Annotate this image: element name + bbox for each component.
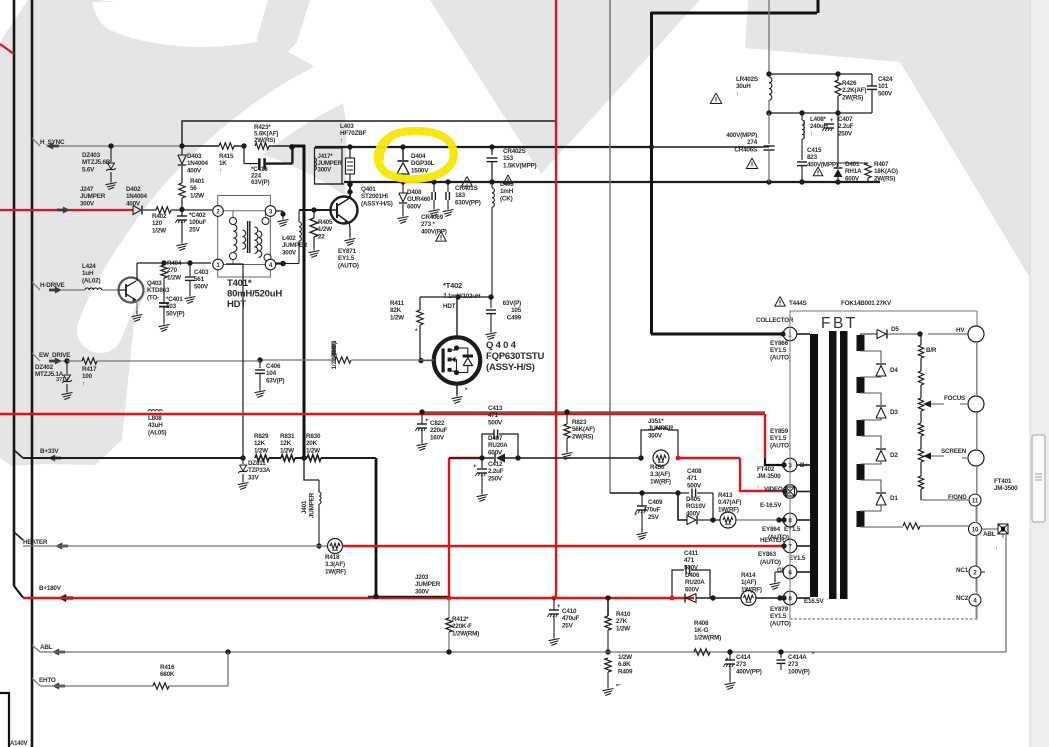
diode D405 [678, 493, 716, 525]
inductor LR402S [710, 76, 772, 116]
svg-text:Q403: Q403 [147, 280, 162, 287]
svg-text:H-DRIVE: H-DRIVE [40, 282, 65, 289]
svg-text:C412: C412 [488, 461, 503, 468]
wire red stub top-left [0, 44, 14, 54]
svg-text:E16.5V: E16.5V [804, 598, 824, 605]
svg-text:RU20A: RU20A [685, 579, 705, 586]
diode D403 [178, 146, 209, 183]
svg-text:250V: 250V [838, 130, 853, 137]
resistor R411 [390, 297, 423, 360]
capacitor C415 [797, 147, 838, 182]
svg-text:100: 100 [82, 373, 93, 380]
svg-text:L808: L808 [148, 415, 162, 422]
svg-text:KTD863: KTD863 [147, 287, 170, 294]
svg-text:300V: 300V [80, 200, 95, 207]
wire thick drop x376 [373, 458, 378, 599]
capacitor CR402S [487, 144, 537, 183]
svg-text:D408: D408 [407, 189, 422, 196]
svg-text:EY1.5: EY1.5 [770, 347, 787, 354]
svg-text:↑: ↑ [82, 380, 85, 387]
svg-text:J401: J401 [301, 500, 308, 514]
svg-text:R830: R830 [306, 433, 321, 440]
wire H_SYNC to R415 [108, 143, 219, 148]
svg-text:(AUTO): (AUTO) [338, 262, 359, 269]
svg-text:D1: D1 [890, 495, 898, 502]
svg-text:63V(P): 63V(P) [266, 377, 285, 384]
wire lr-mid [769, 110, 872, 115]
svg-text:D401: D401 [845, 161, 860, 168]
svg-text:220uF: 220uF [430, 427, 448, 434]
inductor L405 [492, 181, 514, 297]
pin E16.5V 8b [781, 591, 824, 605]
svg-text:C410: C410 [562, 608, 577, 615]
svg-text:1/2W: 1/2W [618, 654, 632, 661]
node B+33V [14, 448, 246, 462]
svg-text:27K: 27K [616, 618, 628, 625]
svg-text:R407: R407 [874, 161, 889, 168]
svg-text:CR402S: CR402S [503, 148, 526, 155]
fusible resistor R450 [650, 450, 740, 485]
jumper J351 [638, 418, 678, 461]
diode D401 [834, 161, 862, 182]
svg-text:183: 183 [455, 192, 466, 199]
svg-text:R410: R410 [616, 611, 631, 618]
transistor Q403 [118, 263, 170, 322]
svg-text:2W(RS): 2W(RS) [254, 137, 275, 144]
svg-text:C424: C424 [878, 76, 893, 83]
svg-text:561: 561 [194, 276, 205, 283]
svg-text:CR4069: CR4069 [421, 214, 444, 221]
capacitor C409 [634, 493, 663, 540]
svg-text:25V: 25V [648, 514, 660, 521]
svg-text:FQP630TSTU: FQP630TSTU [486, 351, 545, 362]
svg-text:*C401: *C401 [166, 296, 183, 303]
resistor R831 [269, 433, 295, 461]
svg-text:1mH: 1mH [500, 188, 514, 195]
svg-text:*": *" [616, 684, 621, 690]
capacitor C499 [486, 297, 522, 340]
svg-text:25V: 25V [189, 226, 201, 233]
svg-text:80mH/520uH: 80mH/520uH [227, 289, 282, 300]
wire red video [740, 458, 785, 491]
wire T401 pin4 thick [276, 261, 299, 267]
wire red vertical net [555, 0, 557, 598]
svg-text:3.3(AF): 3.3(AF) [325, 561, 345, 568]
svg-text:33V: 33V [248, 474, 260, 481]
svg-text:J247: J247 [80, 186, 94, 193]
svg-text:↑: ↑ [736, 90, 739, 97]
svg-text:471: 471 [687, 475, 698, 482]
pin ABL 10 [861, 523, 996, 539]
svg-text:R823: R823 [572, 419, 587, 426]
svg-text:*T402: *T402 [443, 281, 462, 290]
svg-text:(AUTO): (AUTO) [770, 442, 791, 449]
svg-text:L405: L405 [500, 181, 514, 188]
svg-text:11: 11 [972, 497, 979, 504]
svg-text:63V(P): 63V(P) [251, 179, 270, 186]
svg-text:D3: D3 [890, 409, 898, 416]
diode D408 [398, 182, 431, 224]
text EY866 [770, 340, 791, 361]
FBT core bars [829, 331, 848, 599]
svg-text:EY863: EY863 [758, 551, 777, 558]
highlight yellow ellipse [378, 131, 454, 179]
svg-text:(AUTO): (AUTO) [768, 534, 789, 541]
FBT right border [975, 342, 978, 619]
svg-text:FOK14B001 27KV: FOK14B001 27KV [841, 300, 892, 307]
svg-text:1.5KV(MPP): 1.5KV(MPP) [503, 162, 536, 169]
svg-text:JUMPER: JUMPER [282, 242, 308, 249]
wire B+ red line [0, 409, 783, 465]
resistor R415 [219, 143, 247, 175]
resistor R403 [260, 340, 434, 369]
diode D4 [861, 351, 899, 377]
transistor Q401 [331, 182, 393, 246]
capacitor C408 [678, 468, 713, 520]
svg-text:1/2W(RM): 1/2W(RM) [331, 342, 338, 369]
pin NC1 2 [956, 566, 985, 578]
svg-text:R414: R414 [741, 572, 756, 579]
svg-text:↑: ↑ [810, 130, 813, 137]
wire T401 pin1 feed [226, 264, 243, 456]
svg-text:1/2W(RM): 1/2W(RM) [694, 634, 721, 641]
svg-text:HDT: HDT [443, 303, 456, 310]
svg-text:(CK): (CK) [500, 195, 513, 202]
svg-text:5.6V: 5.6V [82, 166, 95, 173]
wire base net [315, 144, 654, 149]
wire lr-top [769, 71, 872, 86]
svg-text:JUMPER: JUMPER [648, 425, 674, 432]
svg-text:DZ403: DZ403 [82, 152, 101, 159]
svg-text:R417: R417 [82, 366, 97, 373]
svg-text:D404: D404 [411, 153, 426, 160]
svg-text:1K-G: 1K-G [694, 627, 709, 634]
zener DZ402 [35, 361, 73, 400]
svg-text:JUMPER: JUMPER [309, 492, 316, 518]
capacitor C401 [159, 296, 185, 332]
terminal SCREEN [941, 448, 984, 466]
zener DZ403 [82, 146, 117, 190]
resistor bleeder B/R [918, 334, 936, 398]
svg-text:FT401: FT401 [994, 478, 1012, 485]
zener DZ811 [238, 458, 271, 490]
svg-text:25V: 25V [562, 622, 574, 629]
capacitor C407 [822, 113, 853, 163]
svg-text:↑: ↑ [757, 485, 760, 491]
svg-text:1K: 1K [219, 160, 227, 167]
svg-text:C407: C407 [838, 116, 853, 123]
svg-text:C411: C411 [684, 550, 699, 557]
svg-text:3?1V: 3?1V [56, 377, 69, 383]
svg-text:ABL: ABL [983, 531, 996, 538]
svg-text:(AL05): (AL05) [148, 429, 166, 436]
svg-text:R401: R401 [190, 178, 205, 185]
svg-text:1/2W(RM): 1/2W(RM) [452, 630, 479, 637]
pin B+ 3 [781, 458, 808, 472]
text T402 [443, 281, 481, 310]
jumper L402 [282, 211, 308, 264]
screen potentiometer [918, 449, 968, 500]
svg-text:FT402: FT402 [757, 466, 775, 473]
svg-text:1500V: 1500V [411, 167, 429, 174]
svg-text:C499: C499 [507, 314, 522, 321]
node H_SYNC [32, 138, 182, 150]
svg-text:L402: L402 [282, 235, 296, 242]
svg-text:B+180V: B+180V [39, 585, 62, 592]
svg-text:R413: R413 [718, 492, 733, 499]
wire T401 pin3 ground [276, 211, 289, 227]
svg-text:ST2001HI: ST2001HI [361, 193, 388, 200]
svg-text:300V: 300V [318, 167, 333, 174]
svg-text:↑: ↑ [340, 137, 343, 144]
svg-text:D407: D407 [488, 435, 503, 442]
svg-text:2.2uF: 2.2uF [488, 468, 504, 475]
svg-text:GUR460: GUR460 [407, 196, 431, 203]
svg-text:C409: C409 [648, 499, 663, 506]
transformer T401 [213, 196, 283, 311]
svg-text:ABL: ABL [40, 644, 53, 651]
wire collector thick [651, 0, 818, 334]
resistor R407 [838, 161, 898, 182]
svg-text:500V: 500V [687, 482, 702, 489]
svg-text:EY879: EY879 [770, 606, 789, 613]
svg-text:273: 273 [736, 661, 747, 668]
svg-text:1/2W: 1/2W [190, 192, 204, 199]
svg-text:C403: C403 [194, 269, 209, 276]
svg-text:↑: ↑ [219, 167, 222, 174]
FBT secondary winding [857, 335, 865, 527]
wire e-rail [610, 490, 681, 495]
svg-text:D2: D2 [890, 452, 898, 459]
transistor Q404 MOSFET [434, 297, 545, 404]
diode D404 [397, 147, 435, 182]
svg-text:273: 273 [788, 661, 799, 668]
capacitor C416 [244, 144, 295, 186]
wire fbt collector [649, 145, 654, 150]
text EY864 [762, 526, 801, 541]
svg-text:T444S: T444S [789, 300, 807, 307]
svg-text:30uH: 30uH [736, 83, 751, 90]
terminal HV [928, 326, 984, 342]
svg-text:R411: R411 [390, 300, 405, 307]
svg-text:R412*: R412* [452, 616, 469, 623]
svg-text:F/GND: F/GND [948, 494, 967, 501]
wire collector rail [344, 179, 880, 184]
svg-text:EY859: EY859 [770, 428, 789, 435]
svg-text:R404: R404 [167, 260, 182, 267]
svg-text:D5: D5 [891, 326, 899, 333]
wire thick R423 out [290, 145, 305, 458]
svg-text:2W(RS): 2W(RS) [842, 94, 863, 101]
svg-text:1/2W: 1/2W [152, 227, 166, 234]
flyback transformer FBT box [775, 297, 977, 620]
svg-text:0.47(AF): 0.47(AF) [718, 499, 741, 506]
svg-text:RU20A: RU20A [488, 442, 508, 449]
pin F/GND 11 [948, 494, 981, 506]
focus potentiometer [918, 398, 944, 449]
svg-text:EY1.5: EY1.5 [789, 555, 806, 562]
svg-text:22: 22 [318, 233, 325, 240]
svg-text:T401*: T401* [227, 278, 252, 289]
resistor R402 [143, 207, 182, 235]
wire damper node [566, 146, 568, 148]
resistor R401 [179, 178, 205, 212]
terminal FOCUS [944, 395, 984, 412]
svg-text:B/R: B/R [926, 347, 937, 354]
svg-text:6.8K: 6.8K [618, 661, 631, 668]
pin NC2 4 [956, 594, 981, 606]
svg-text:120: 120 [152, 220, 163, 227]
svg-text:105: 105 [511, 307, 522, 314]
svg-text:1uH: 1uH [82, 270, 94, 277]
svg-text:600V: 600V [685, 586, 700, 593]
inductor L424 [82, 263, 118, 290]
svg-text:100V(P): 100V(P) [788, 668, 810, 675]
wire top right gray vertical [766, 0, 771, 77]
svg-text:1(AF): 1(AF) [741, 579, 756, 586]
capacitor C822 [415, 412, 447, 451]
wire T401 pin2 [182, 209, 212, 211]
svg-text:400V(MPP): 400V(MPP) [807, 161, 838, 168]
svg-text:COLLECTOR: COLLECTOR [756, 317, 794, 324]
svg-text:43uH: 43uH [148, 422, 163, 429]
svg-text:*C402: *C402 [189, 212, 206, 219]
svg-text:FOCUS: FOCUS [944, 395, 965, 402]
capacitor C413 box [482, 405, 518, 458]
diode D402 [126, 186, 148, 215]
text EY871 [338, 248, 359, 269]
svg-text:56: 56 [190, 185, 197, 192]
svg-text:EHTO: EHTO [39, 677, 56, 684]
diode D5 [861, 326, 923, 339]
node EW_DRIVE [32, 352, 70, 365]
node ABL [32, 644, 1006, 656]
svg-text:100uF: 100uF [189, 219, 207, 226]
svg-text:2.2uF: 2.2uF [838, 123, 854, 130]
svg-text:C822: C822 [430, 420, 445, 427]
resistor R426 [835, 74, 866, 113]
svg-text:C414A: C414A [788, 654, 807, 661]
node B+180V [23, 585, 694, 602]
svg-text:3.3(AF): 3.3(AF) [650, 471, 670, 478]
svg-text:101: 101 [878, 83, 889, 90]
resistor R823 [562, 412, 595, 460]
wire gray vertical net [609, 0, 611, 493]
svg-text:C414: C414 [736, 654, 751, 661]
resistor R830 [295, 433, 376, 461]
svg-text:SCREEN: SCREEN [941, 448, 967, 455]
svg-text:18K(AG): 18K(AG) [874, 168, 898, 175]
svg-text:12K: 12K [280, 440, 292, 447]
svg-text:Q401: Q401 [361, 186, 376, 193]
capacitor C410 [547, 598, 579, 646]
pin E-16.5V 8 [760, 502, 797, 527]
svg-text:NC1: NC1 [956, 567, 969, 574]
svg-text:B+33V: B+33V [40, 448, 59, 455]
resistor R416 [153, 652, 228, 689]
node HEATER [14, 532, 327, 550]
capacitor CR401S [429, 177, 481, 217]
svg-text:TZP33A: TZP33A [248, 467, 271, 474]
svg-text:50V(P): 50V(P) [166, 310, 185, 317]
svg-text:DGP30L: DGP30L [411, 160, 435, 167]
svg-text:400V: 400V [187, 167, 202, 174]
svg-text:1N4004: 1N4004 [126, 193, 148, 200]
svg-text:274: 274 [747, 139, 758, 146]
wire FT401 drop [1005, 535, 1007, 652]
svg-text:EY1.5: EY1.5 [770, 435, 787, 442]
svg-text:630V(PP): 630V(PP) [455, 199, 481, 206]
svg-text:VIDEO: VIDEO [764, 486, 783, 493]
svg-text:C413: C413 [488, 405, 503, 412]
diode D407 [449, 435, 641, 463]
svg-text:D406: D406 [685, 572, 700, 579]
svg-text:(AL02): (AL02) [82, 277, 100, 284]
svg-text:220K-F: 220K-F [452, 623, 472, 630]
svg-text:J203: J203 [415, 574, 429, 581]
svg-text:EY871: EY871 [338, 248, 357, 255]
svg-text:(AUTO): (AUTO) [770, 354, 791, 361]
svg-text:7.1mH/102uH: 7.1mH/102uH [443, 293, 481, 300]
svg-text:1/2W: 1/2W [616, 625, 630, 632]
svg-text:FBT: FBT [821, 315, 858, 332]
wire left bus line A [14, 0, 23, 598]
svg-text:500V: 500V [878, 90, 893, 97]
scrollbar thumb [1032, 435, 1045, 522]
svg-text:DZ402: DZ402 [35, 364, 54, 371]
svg-text:EW_DRIVE: EW_DRIVE [39, 352, 70, 359]
svg-text:273 *: 273 * [421, 221, 435, 228]
resistor R417 [67, 358, 260, 388]
capacitor C424 [867, 76, 893, 113]
svg-text:600V: 600V [407, 203, 422, 210]
pin collector 1 [756, 317, 797, 341]
svg-text:L403: L403 [340, 123, 354, 130]
svg-text:LR402S: LR402S [736, 76, 758, 83]
svg-text:1/2W: 1/2W [318, 226, 332, 233]
svg-text:(ASSY-H/S): (ASSY-H/S) [486, 362, 535, 373]
svg-text:470uF: 470uF [562, 615, 580, 622]
connector FT402 VIDEO [757, 466, 797, 498]
text EY879 [770, 606, 791, 627]
inductor L408 [802, 113, 829, 160]
svg-text:12K: 12K [254, 440, 266, 447]
pin HEATER 7 [781, 539, 797, 553]
svg-text:EY864: EY864 [762, 526, 781, 533]
svg-text:HEATER: HEATER [23, 539, 48, 546]
resistor R410 [605, 598, 631, 652]
connector FT401 [982, 478, 1019, 551]
svg-text:D402: D402 [126, 186, 141, 193]
svg-text:A140V: A140V [10, 741, 28, 747]
wire red drop x554 [555, 597, 557, 599]
svg-text:R409: R409 [618, 668, 633, 675]
wire gate net [418, 358, 433, 363]
svg-text:E-16.5V: E-16.5V [760, 502, 782, 509]
svg-text:160V: 160V [430, 434, 445, 441]
capacitor CR406S [726, 113, 774, 182]
svg-text:(AUTO): (AUTO) [770, 620, 791, 627]
decorative watermark [0, 0, 1030, 466]
svg-text:EY1.5: EY1.5 [338, 255, 355, 262]
wire J247 red feed [0, 186, 133, 214]
capacitor C412 [473, 458, 504, 502]
svg-text:1W(RF): 1W(RF) [650, 478, 671, 485]
wire y147 right [654, 146, 763, 148]
svg-text:680K: 680K [160, 671, 175, 678]
svg-text:HV: HV [956, 327, 965, 334]
svg-text:EY866: EY866 [770, 340, 789, 347]
